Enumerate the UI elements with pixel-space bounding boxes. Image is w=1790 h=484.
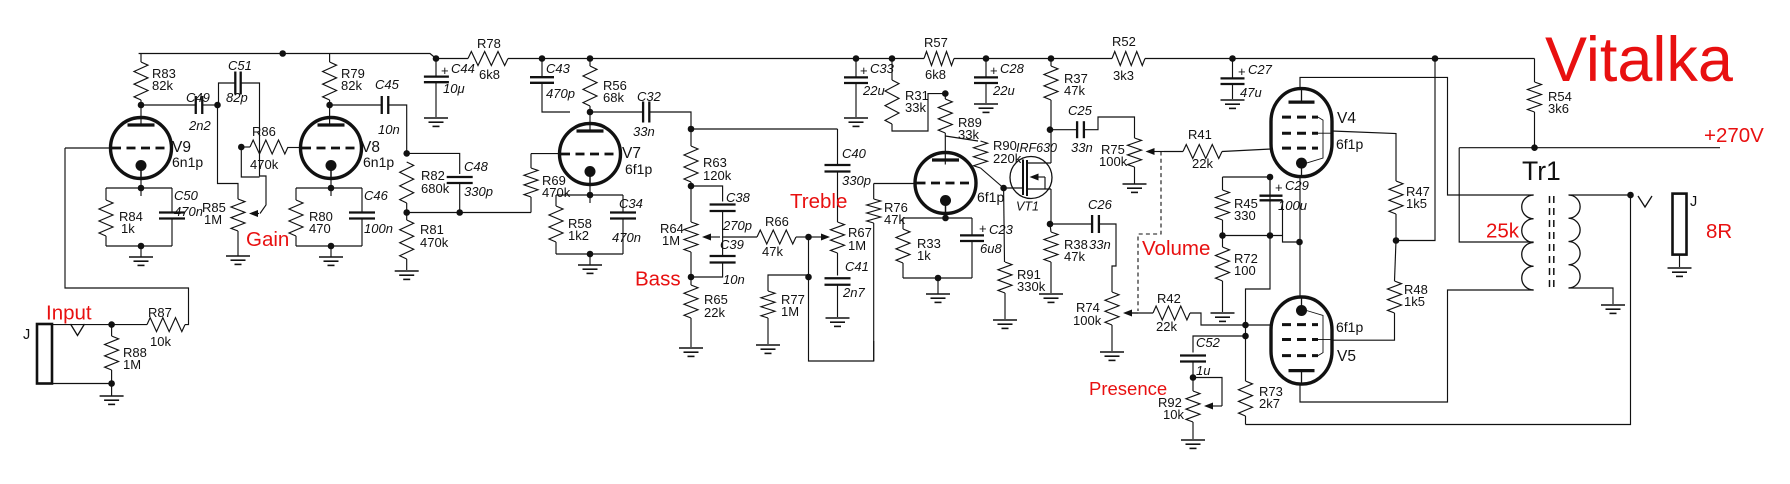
svg-text:R66: R66	[765, 214, 789, 229]
wire R76 top to grid wire	[873, 184, 875, 200]
capacitor C29 100u electrolytic	[1260, 178, 1309, 213]
svg-text:470n: 470n	[612, 230, 641, 245]
svg-text:R52: R52	[1112, 34, 1136, 49]
ground under R72	[1211, 313, 1235, 321]
svg-text:100k: 100k	[1099, 154, 1128, 169]
wire C45 to R82 node	[388, 105, 406, 153]
ground under V8 cathode network	[319, 246, 343, 265]
wire C40 to R67	[837, 172, 839, 223]
svg-text:C43: C43	[546, 61, 571, 76]
wire gate node to VT1	[1004, 187, 1023, 189]
wire C43 bottom	[542, 83, 570, 112]
wire C50 bottom	[171, 219, 173, 246]
ground transformer secondary	[1601, 305, 1625, 313]
resistor R79 82k	[323, 62, 365, 100]
svg-text:10n: 10n	[723, 272, 745, 287]
ground under C33	[844, 118, 868, 126]
wire screen node to bus	[1396, 59, 1435, 241]
svg-text:C45: C45	[375, 77, 400, 92]
svg-text:Presence: Presence	[1089, 378, 1167, 399]
junction VT1 drain node	[1047, 126, 1054, 133]
wire R86 left lead	[241, 146, 250, 148]
wire cathode mid rail	[1223, 235, 1283, 237]
svg-text:C44: C44	[451, 61, 475, 76]
svg-text:2n2: 2n2	[188, 118, 211, 133]
capacitor C28 22u electrolytic	[974, 61, 1025, 98]
resistor R69 470k	[524, 168, 571, 200]
svg-text:Tr1: Tr1	[1522, 156, 1561, 186]
wire R63 bottom	[690, 182, 692, 186]
svg-text:J: J	[1690, 194, 1697, 210]
wire V7 cathode network top rail	[556, 194, 623, 196]
resistor R56 68k	[583, 66, 627, 106]
svg-text:82k: 82k	[341, 78, 362, 93]
triode tube V8	[301, 118, 395, 179]
capacitor C43 470p	[530, 61, 575, 101]
svg-text:J: J	[23, 327, 30, 343]
svg-text:100n: 100n	[364, 221, 393, 236]
wire C40 top	[837, 129, 839, 165]
svg-text:C49: C49	[186, 90, 210, 105]
junction V9 cathode bottom	[138, 243, 145, 250]
ground under R74	[1100, 352, 1124, 360]
svg-text:+: +	[441, 63, 449, 78]
wire V5 anode	[1300, 290, 1534, 402]
wire R74 bottom	[1111, 325, 1113, 351]
junction output node	[1627, 192, 1634, 199]
svg-text:R57: R57	[924, 35, 948, 50]
wire cathode bottom rail	[903, 277, 972, 279]
svg-text:C46: C46	[364, 188, 389, 203]
junction V7 cathode bottom	[587, 251, 594, 258]
wire R92 wiper up	[1193, 378, 1222, 407]
wire R69 bottom to rail	[530, 197, 532, 213]
svg-text:6f1p: 6f1p	[625, 161, 652, 177]
wire V7 anode to C32	[590, 111, 643, 113]
junction mid rail	[1267, 232, 1274, 239]
capacitor C27 47u electrolytic	[1221, 62, 1273, 100]
pentode tube V5	[1271, 297, 1363, 384]
wire R73 top lead	[1245, 358, 1247, 381]
svg-text:1M: 1M	[123, 357, 141, 372]
junction bass node	[688, 274, 695, 281]
resistor R72 100	[1216, 247, 1258, 281]
wire R88 top lead	[111, 325, 113, 336]
wire R58 bottom	[555, 242, 557, 254]
wire R90 to VT1 gate node	[981, 168, 1004, 188]
junction C52/R92 node	[1190, 374, 1197, 381]
wire treble node down	[808, 237, 810, 277]
wire feedback vertical	[1246, 177, 1271, 358]
wire bus R52 to R54 corner	[1145, 58, 1535, 60]
wire R64 bottom lead	[690, 252, 692, 277]
junction R45 bottom	[1219, 232, 1226, 239]
svg-text:330p: 330p	[464, 184, 493, 199]
wire C26 to R74	[1099, 224, 1116, 292]
resistor R58 1k2	[549, 206, 592, 243]
svg-text:C23: C23	[989, 222, 1014, 237]
wire R88 bottom lead	[111, 370, 113, 384]
ground under output jack	[1668, 268, 1692, 276]
wire R84 branch	[105, 188, 107, 200]
transistor VT1 IRF630 (MOSFET)	[1010, 130, 1057, 224]
wire R86 to V8 grid	[288, 147, 301, 149]
wire R80 branch	[295, 188, 297, 200]
svg-text:Volume: Volume	[1142, 237, 1210, 260]
wire bus corner to R54	[1534, 59, 1536, 83]
svg-text:C38: C38	[726, 190, 751, 205]
svg-text:6k8: 6k8	[925, 67, 946, 82]
svg-text:C32: C32	[637, 89, 662, 104]
svg-text:2k7: 2k7	[1259, 396, 1280, 411]
ground under R77	[756, 345, 780, 353]
transformer Tr1 core	[1549, 196, 1551, 290]
wire input jack bottom	[52, 383, 112, 385]
junction R82 C48 top	[403, 150, 410, 157]
transformer Tr1 secondary winding	[1569, 195, 1581, 288]
wire R37 top	[1050, 59, 1052, 67]
wire C51 right lead to R85 wiper	[241, 83, 266, 214]
wire R89 to R90 diagonal	[945, 136, 978, 141]
svg-text:R41: R41	[1188, 127, 1212, 142]
wire V7 cathode to RC	[589, 185, 591, 204]
resistor R90 220k	[974, 138, 1022, 168]
junction tone stack top	[688, 126, 695, 133]
wire R75 wiper to R41	[1164, 151, 1183, 153]
svg-text:330: 330	[1234, 208, 1256, 223]
wire R83 to V9 anode	[140, 100, 142, 125]
resistor R52 3k3 (in supply bus)	[1112, 34, 1145, 83]
svg-text:+: +	[979, 221, 987, 236]
capacitor C45 10n	[375, 77, 400, 137]
svg-text:1k: 1k	[917, 248, 931, 263]
wire R38 top	[1050, 224, 1051, 232]
wire C34 branch top	[622, 195, 624, 213]
wire R58 branch	[555, 195, 557, 206]
capacitor C44 10u electrolytic	[424, 61, 475, 96]
ground under R65	[679, 348, 703, 356]
wire R80 bottom	[295, 236, 297, 246]
potentiometer R64 1M (Bass pot)	[660, 221, 720, 252]
junction on V5 grid wire	[1242, 322, 1249, 329]
junction input node	[108, 321, 115, 328]
resistor R41 22k	[1183, 127, 1222, 171]
wire C43 top	[541, 59, 543, 78]
ground under R75	[1123, 167, 1147, 192]
input jack J	[37, 324, 52, 384]
junction bus R31	[889, 55, 896, 62]
junction bus C43	[539, 55, 546, 62]
ground under R91	[993, 320, 1017, 328]
ground under V7 cathode network	[578, 254, 602, 273]
junction node A (C49/C51/R85)	[214, 102, 221, 109]
svg-text:C27: C27	[1248, 62, 1273, 77]
wire R84 bottom	[105, 236, 107, 246]
svg-text:22u: 22u	[992, 83, 1015, 98]
arrow into R67	[821, 234, 830, 241]
wire R83 top to bus	[140, 54, 142, 63]
ground under R81	[395, 271, 419, 279]
wire R91 to ground	[1004, 293, 1006, 319]
potentiometer R75 100k (Volume pot A)	[1099, 138, 1164, 169]
svg-text:C41: C41	[845, 259, 869, 274]
junction bus C28	[983, 55, 990, 62]
svg-text:6n1p: 6n1p	[363, 154, 394, 170]
potentiometer R85 1M (Gain)	[202, 199, 259, 231]
capacitor C38 270p	[710, 190, 752, 233]
junction screen node	[1393, 237, 1400, 244]
svg-text:3k6: 3k6	[1548, 101, 1569, 116]
wire R89 bottom to anode	[944, 133, 946, 165]
junction C29 top	[1267, 174, 1274, 181]
ground under R38	[1039, 294, 1063, 302]
wire R92 to ground	[1192, 422, 1194, 439]
wire V8 anode to C45	[330, 104, 382, 106]
wire C29 top lead	[1269, 177, 1271, 196]
svg-text:100: 100	[1234, 263, 1256, 278]
wire R67 bottom to C41	[837, 253, 839, 276]
junction R63 bottom / C38	[688, 183, 695, 190]
wire C28 top	[985, 59, 987, 78]
wire R64 top lead	[690, 186, 692, 222]
junction R82 bottom	[403, 209, 410, 216]
wire tone top to C40	[691, 128, 838, 130]
resistor R42 22k	[1153, 291, 1190, 334]
wire C39 top	[722, 237, 724, 256]
svg-text:33k: 33k	[905, 100, 926, 115]
wire R54 to +270V line	[1534, 112, 1536, 148]
svg-text:C52: C52	[1196, 335, 1221, 350]
wire R37 bottom	[1050, 100, 1052, 130]
svg-text:47k: 47k	[1064, 83, 1085, 98]
junction R86 left node	[238, 144, 245, 151]
wire R31 top	[891, 59, 893, 81]
wire R89 top lead	[944, 94, 946, 99]
potentiometer R67 1M (Treble pot)	[831, 222, 872, 253]
wire V8 cathode to RC	[330, 179, 332, 197]
wire R65 to ground	[690, 318, 692, 347]
svg-text:470p: 470p	[546, 86, 575, 101]
svg-text:25k: 25k	[1486, 220, 1520, 243]
junction bus R56	[587, 55, 594, 62]
svg-text:1k2: 1k2	[568, 228, 589, 243]
svg-text:1M: 1M	[662, 233, 680, 248]
output jack J 8R	[1673, 194, 1687, 255]
wire R33 bottom	[902, 263, 904, 278]
resistor R86 470k	[250, 124, 288, 172]
svg-text:Treble: Treble	[790, 190, 847, 213]
svg-text:C28: C28	[1000, 61, 1025, 76]
svg-text:680k: 680k	[421, 181, 450, 196]
wire treble node to R67 wiper	[809, 236, 823, 238]
wire V4 screen	[1332, 131, 1396, 181]
resistor R31 33k	[885, 80, 929, 124]
wire R45 top lead	[1222, 177, 1224, 190]
wire R81 to ground	[406, 259, 408, 270]
svg-text:Input: Input	[46, 302, 92, 325]
potentiometer R92 10k (Presence pot)	[1158, 391, 1222, 422]
svg-text:47k: 47k	[884, 212, 905, 227]
resistor R81 470k	[400, 220, 449, 259]
svg-text:C26: C26	[1088, 197, 1113, 212]
junction R54 / +270V	[1531, 144, 1538, 151]
resistor R63 120k	[684, 146, 732, 183]
wire R77 top	[768, 275, 809, 291]
svg-text:6f1p: 6f1p	[977, 189, 1004, 205]
capacitor C48 330p	[447, 159, 493, 199]
wire source node to C26	[1050, 223, 1092, 225]
svg-text:1u: 1u	[1196, 363, 1210, 378]
wire V7 grid from R69	[531, 153, 560, 155]
svg-text:10μ: 10μ	[443, 81, 465, 96]
wire C33 bottom	[855, 83, 857, 117]
svg-text:470k: 470k	[542, 185, 571, 200]
wire wiper node to R66	[723, 236, 757, 238]
wire V9 cathode network bottom rail	[106, 245, 172, 247]
ground under C44	[424, 118, 448, 126]
wire C27 bottom	[1232, 84, 1234, 99]
capacitor C33 22u electrolytic	[844, 61, 895, 98]
resistor R88 1M	[105, 336, 147, 372]
resistor R73 2k7	[1239, 381, 1283, 416]
svg-text:10n: 10n	[378, 122, 400, 137]
junction presence tap	[1242, 333, 1249, 340]
wire C48 bottom	[459, 183, 461, 213]
svg-text:470n: 470n	[174, 204, 203, 219]
svg-text:82p: 82p	[226, 90, 248, 105]
wire C52 bottom	[1192, 362, 1194, 378]
svg-text:R78: R78	[477, 36, 501, 51]
resistor R54 3k6	[1528, 82, 1572, 116]
svg-text:C34: C34	[619, 196, 643, 211]
ground under C28	[974, 104, 998, 112]
wire C44 top	[435, 59, 437, 77]
svg-text:C33: C33	[870, 61, 895, 76]
svg-text:1k5: 1k5	[1404, 294, 1425, 309]
wire C49 to node A	[202, 104, 217, 106]
triode tube middle triode 6f1p	[915, 153, 1004, 214]
capacitor C25 33n	[1068, 103, 1093, 155]
wire R63 top lead	[690, 129, 692, 146]
ground under R85	[226, 231, 250, 264]
resistor R91 330k	[998, 262, 1046, 294]
wire input jack top	[52, 324, 147, 326]
svg-text:V4: V4	[1337, 110, 1356, 127]
volume gang dashed line	[1138, 152, 1161, 312]
wire R56 bottom lead	[589, 106, 591, 112]
wire grid wire middle triode	[874, 183, 915, 185]
svg-text:C48: C48	[464, 159, 489, 174]
wire R74 wiper to R42	[1131, 312, 1154, 314]
svg-text:1k: 1k	[121, 221, 135, 236]
resistor R33 1k	[896, 229, 941, 263]
svg-text:VT1: VT1	[1016, 200, 1039, 214]
wire C46 bottom	[361, 219, 363, 246]
wire V8 cathode network bottom rail	[296, 245, 362, 247]
svg-text:2n7: 2n7	[842, 285, 865, 300]
ground under R92	[1181, 440, 1205, 448]
junction V9 cathode	[138, 185, 145, 192]
junction input ground node	[108, 380, 115, 387]
capacitor C34 470n	[610, 196, 643, 245]
wire C46 branch top	[361, 188, 363, 212]
wire R56 top	[589, 59, 591, 67]
junction R31/R89 node	[942, 90, 949, 97]
svg-text:Gain: Gain	[246, 228, 289, 251]
svg-text:+: +	[990, 63, 998, 78]
wire R79 to V8 anode	[329, 100, 331, 125]
wire R33 branch	[902, 218, 904, 229]
wire V7 cathode network bottom rail	[556, 253, 623, 255]
output test point V marker	[1638, 196, 1652, 207]
junction VT1 gate node	[1000, 185, 1007, 192]
svg-text:470: 470	[309, 221, 331, 236]
resistor R87 10k	[147, 305, 185, 349]
wire V7 anode lead	[589, 112, 591, 131]
wire R38 to ground	[1050, 262, 1052, 293]
capacitor C32 33n	[633, 89, 662, 139]
wire R73 bottom to feedback line	[1245, 416, 1247, 425]
wire V4 cathode down	[1299, 177, 1301, 297]
svg-text:C51: C51	[228, 58, 252, 73]
svg-text:6k8: 6k8	[479, 67, 500, 82]
junction V7 cathode	[587, 192, 594, 199]
svg-text:6f1p: 6f1p	[1336, 319, 1363, 335]
capacitor C50 470n	[159, 188, 203, 219]
resistor R84 1k	[99, 200, 143, 236]
junction tone output node	[805, 274, 812, 281]
wire R72 top lead	[1222, 236, 1224, 248]
svg-text:10k: 10k	[1163, 407, 1184, 422]
svg-text:R87: R87	[148, 305, 172, 320]
svg-text:33n: 33n	[633, 124, 655, 139]
junction V7 anode node	[587, 109, 594, 116]
svg-text:1M: 1M	[848, 238, 866, 253]
wire node A down to R85	[218, 105, 239, 199]
resistor R89 33k	[938, 99, 982, 142]
wire C29 bottom lead	[1283, 200, 1300, 242]
wire V9 cathode network top rail	[106, 187, 172, 189]
wire R41 to V4 grid	[1222, 149, 1271, 152]
svg-text:8R: 8R	[1706, 220, 1732, 243]
capacitor C51 82p	[226, 58, 252, 105]
wire V9 grid input	[65, 147, 111, 149]
pentode tube V4	[1271, 89, 1363, 177]
wire R65 top	[690, 277, 692, 285]
wire C38 bottom to wiper node	[722, 211, 724, 237]
wire jack to ground	[1679, 255, 1681, 267]
svg-text:IRF630: IRF630	[1016, 141, 1057, 155]
wire drain node to C25	[1050, 129, 1077, 131]
wire +270V to center tap	[1459, 148, 1533, 242]
junction middle cathode node	[942, 215, 949, 222]
svg-text:330k: 330k	[1017, 279, 1046, 294]
resistor R37 47k	[1044, 66, 1088, 100]
wire C39 bottom to bass node	[691, 263, 723, 278]
svg-text:3k3: 3k3	[1113, 68, 1134, 83]
svg-text:6n1p: 6n1p	[172, 154, 203, 170]
svg-text:C29: C29	[1285, 178, 1309, 193]
wire C44 bottom	[435, 82, 437, 117]
svg-text:22k: 22k	[1156, 319, 1177, 334]
resistor R83 82k	[134, 62, 176, 100]
svg-text:47u: 47u	[1240, 85, 1262, 100]
wire C23 bottom	[971, 241, 973, 278]
wire cathode network rail	[903, 217, 972, 219]
svg-text:C39: C39	[720, 237, 744, 252]
wire C34 bottom	[622, 219, 624, 254]
svg-text:6u8: 6u8	[980, 241, 1002, 256]
